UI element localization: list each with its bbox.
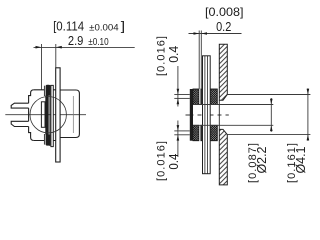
svg-text:2.9: 2.9 bbox=[68, 34, 84, 48]
grommet (dark, edge-on side view) bbox=[44, 85, 50, 146]
Ø4.1 dimension line with outside arrows bbox=[307, 88, 310, 141]
grommet top flange (stippled section) bbox=[193, 89, 217, 105]
dimension 2.9 ±0.10 (with extension lines and arrows) bbox=[34, 44, 135, 90]
svg-text:[0.008]: [0.008] bbox=[205, 5, 244, 19]
dimension text [0.114 ±0.004] bbox=[53, 20, 125, 34]
svg-text:[0.016]: [0.016] bbox=[155, 141, 167, 181]
lower contact pin (side view) bbox=[11, 121, 28, 126]
bore outline / Ø2.2 extension lines bbox=[193, 105, 273, 126]
grommet sleeve wall (dark, left) bbox=[190, 89, 193, 141]
svg-text:±0.004: ±0.004 bbox=[89, 23, 119, 34]
panel left face line across hole bbox=[218, 100, 220, 129]
Ø4.1 extension lines bbox=[227, 95, 310, 135]
svg-text:0.4: 0.4 bbox=[167, 46, 181, 63]
body inner bore line (right part, faint) bbox=[72, 96, 74, 133]
svg-text:]: ] bbox=[121, 20, 125, 34]
panel (side view, edge) bbox=[56, 68, 60, 162]
rotated label [0.161] Ø4.1 bbox=[286, 143, 308, 183]
retaining plate (side view) bbox=[51, 85, 53, 146]
svg-text:Ø4.1: Ø4.1 bbox=[294, 146, 308, 173]
centerline (connector axis, side view) bbox=[5, 114, 86, 116]
retaining plate (section, through flanges) bbox=[203, 56, 211, 174]
upper contact pin (side view) bbox=[11, 103, 28, 108]
svg-text:[0.016]: [0.016] bbox=[155, 36, 167, 76]
Ø2.2 dimension line with outside arrows bbox=[270, 98, 273, 132]
washer line (behind grommet) bbox=[49, 85, 51, 146]
connector body outline (side view) bbox=[29, 90, 80, 141]
0.4 top dimension (left of detail) bbox=[174, 66, 190, 107]
detail circle bbox=[30, 97, 66, 133]
svg-text:[0.114: [0.114 bbox=[53, 20, 84, 34]
rotated label [0.016] 0.4 (top) bbox=[155, 36, 181, 76]
0.4 bottom dimension (left of detail) bbox=[174, 121, 190, 158]
rotated label [0.016] 0.4 (bottom) bbox=[155, 141, 181, 181]
dimension text [0.008] bbox=[205, 5, 244, 19]
centerline (detail axis, dash-dot) bbox=[186, 114, 229, 116]
grommet bottom flange (stippled section) bbox=[193, 125, 217, 140]
dimension text 0.2 bbox=[216, 19, 231, 34]
svg-text:±0.10: ±0.10 bbox=[88, 36, 108, 48]
panel lower part (hatched section, chamfered hole edge) bbox=[219, 129, 227, 185]
0.2 dimension (line, outside arrows, extension lines) bbox=[189, 31, 242, 90]
insulator block (side view) bbox=[41, 102, 45, 128]
svg-text:0.2: 0.2 bbox=[216, 19, 231, 34]
dimension text 2.9 ±0.10 bbox=[68, 34, 109, 48]
svg-text:Ø2.2: Ø2.2 bbox=[255, 146, 269, 173]
rotated label [0.087] Ø2.2 bbox=[247, 143, 269, 183]
svg-text:0.4: 0.4 bbox=[167, 154, 181, 170]
panel upper part (hatched section, chamfered hole edge) bbox=[219, 44, 227, 100]
